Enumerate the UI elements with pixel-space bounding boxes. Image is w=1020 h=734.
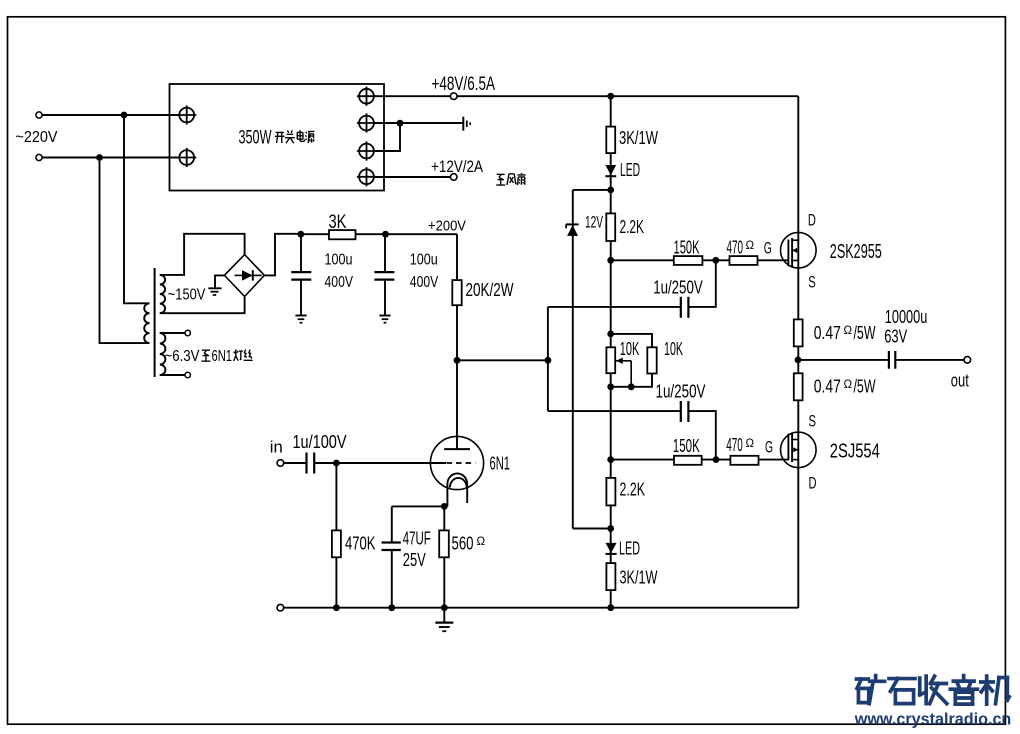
wire source to out [797,346,799,373]
wire upper coupling right [689,260,715,307]
svg-text:150K: 150K [673,436,700,456]
svg-text:/5W: /5W [854,323,876,343]
wire grid [315,462,446,464]
svg-text:0.47: 0.47 [814,323,841,343]
svg-text:~220V: ~220V [16,129,59,146]
svg-text:100u: 100u [325,251,353,268]
svg-text:~6.3V: ~6.3V [165,348,200,365]
wire output row [798,359,888,361]
svg-text:560: 560 [452,534,474,554]
wire 150V top lead [160,234,245,275]
bridge rectifier D1 [224,255,264,297]
node pot top [607,331,614,338]
terminal AC N [36,154,42,160]
svg-text:12V: 12V [585,213,603,232]
wire 470-gate lower [759,459,789,461]
wire gate row 2 [611,459,674,461]
wire 150K-470 [702,259,729,261]
svg-text:D: D [808,210,816,229]
svg-text:6N1: 6N1 [490,452,511,473]
node feedback tap 2 [713,456,720,463]
wire 150K-470 lower [702,459,731,461]
wire divider vertical [547,307,549,411]
terminal input return [277,604,284,611]
capacitor 10000u/63V [888,351,890,369]
capacitor C1 100u/400V [300,234,302,271]
label 开关电源 [276,131,284,133]
wire bias column [610,96,612,608]
terminal box-right-4 [359,169,374,184]
terminal input [277,460,284,467]
LED upper [605,165,616,175]
node plate/feedback junction [454,357,461,364]
svg-text:0.47: 0.47 [814,377,841,397]
svg-text:~150V: ~150V [168,286,206,303]
node output [795,357,802,364]
capacitor 1u/250V lower [680,401,682,422]
resistor 560 [443,506,445,607]
terminal 6.3V bottom [160,374,185,376]
svg-text:2.2K: 2.2K [620,216,645,237]
svg-text:D: D [809,473,817,492]
label 至风扇 [497,173,505,175]
svg-text:400V: 400V [325,274,354,291]
svg-text:150K: 150K [674,237,700,257]
wire +200V rail left [301,233,329,235]
terminal +48V [450,93,457,100]
transformer core [154,268,156,377]
svg-text:www.crystalradio.cn: www.crystalradio.cn [854,710,1011,729]
svg-text:LED: LED [620,160,640,180]
node zener top junction [607,187,614,194]
svg-text:/5W: /5W [854,377,876,397]
wire pot top to 10K [611,334,652,347]
svg-text:Ω: Ω [746,438,755,450]
tube grid (dashed) [447,462,476,464]
wire lower coupling [548,410,680,412]
ground main [443,608,445,622]
wire to zener [573,189,611,191]
terminal AC L [36,112,42,118]
node C2 junction [382,231,389,238]
wire input [284,462,306,464]
tube 6N1 envelope [430,436,483,489]
wire gate row 1 [611,259,674,261]
resistor 3K/1W upper [606,127,615,154]
zener D2 12V [572,190,574,529]
resistor 0.47/5W upper [794,319,803,346]
mosfet Q1 2SK2955 [781,232,817,268]
svg-text:10K: 10K [620,339,640,359]
svg-text:Ω: Ω [844,379,853,391]
svg-text:470: 470 [727,238,744,258]
svg-text:Ω: Ω [844,325,853,337]
svg-text:10K: 10K [664,339,683,359]
transformer secondary ~6.3V winding [160,333,166,375]
wire AC N [42,157,179,159]
resistor 3K [329,230,356,239]
svg-text:3K: 3K [329,212,347,233]
wire zener bottom [573,528,611,530]
wire plate to divider [457,359,548,361]
capacitor 47UF/25V [391,506,393,542]
svg-text:47UF: 47UF [403,528,431,548]
svg-text:2SK2955: 2SK2955 [830,240,882,263]
terminal +12V [450,174,457,181]
wire lower coupling right [689,411,715,460]
wire 150V bottom lead [160,297,245,313]
ground at bridge AC- corner [215,275,224,288]
svg-text:out: out [951,371,969,391]
svg-text:1u/250V: 1u/250V [656,381,706,401]
node gate row 1 [607,257,614,264]
LED lower [606,543,617,553]
wire AC-N to transformer primary bottom [100,158,150,344]
node wiper bottom [628,383,635,390]
svg-text:2SJ554: 2SJ554 [830,440,880,463]
svg-text:+48V/6.5A: +48V/6.5A [432,74,496,95]
svg-text:LED: LED [619,539,640,559]
node pot bottom [607,383,614,390]
wire terminal3 strap [374,123,400,151]
resistor 470K [335,463,337,608]
node 47UF/rail [388,604,395,611]
resistor 2.2K upper [606,213,615,241]
node gate row 2 [607,456,614,463]
node 470K/rail [333,604,340,611]
ground C1 [295,315,306,317]
wire +200V rail right [356,233,458,235]
node +48V at 3K/1W branch [607,93,614,100]
node PSU gnd junction [397,120,404,127]
resistor 0.47/5W lower [794,373,803,400]
svg-text:in: in [270,438,283,457]
node feedback tap 1 [712,257,719,264]
terminal box-right-1 [359,89,374,104]
svg-text:350W: 350W [239,128,272,149]
svg-text:20K/2W: 20K/2W [466,280,514,300]
terminal box-left-1 [179,108,194,123]
svg-text:10000u: 10000u [885,307,928,327]
resistor 2.2K lower [606,478,615,506]
terminal box-right-2 [359,116,374,131]
svg-text:470: 470 [726,435,743,455]
svg-text:+200V: +200V [428,219,466,235]
wire output to terminal [896,359,964,361]
svg-text:1u/100V: 1u/100V [293,432,347,452]
resistor 470 lower [730,456,758,465]
terminal box-left-2 [179,150,194,165]
transformer secondary ~150V winding [160,275,165,313]
svg-text:2.2K: 2.2K [620,478,646,499]
wire pot bottom [611,374,652,387]
wire AC L [42,114,179,116]
resistor 10K fixed [647,347,656,373]
capacitor 1u/250V upper [680,297,682,318]
transformer primary winding [144,303,149,343]
resistor 150K upper [674,256,703,265]
watermark 矿石收音机 [856,677,868,681]
svg-text:3K/1W: 3K/1W [619,128,658,148]
node zener bottom junction [607,525,614,532]
ground PSU (rotated) [462,117,464,131]
resistor 3K/1W lower [606,563,615,590]
resistor 470 upper [730,256,758,265]
svg-text:470K: 470K [345,534,376,554]
wire bridge output [264,234,299,276]
node cathode junction [392,505,448,507]
mosfet Q2 2SJ554 [781,432,817,468]
svg-text:1u/250V: 1u/250V [653,277,703,297]
node 560/rail [441,604,448,611]
svg-text:63V: 63V [884,327,907,347]
svg-text:+12V/2A: +12V/2A [431,157,484,176]
wire 470-gate [758,259,789,261]
resistor 20K/2W [452,280,461,305]
power supply box 350W [170,84,385,191]
wire source 2SJ554 [797,400,799,607]
terminal out [964,357,971,364]
svg-text:S: S [809,411,817,430]
svg-text:G: G [764,239,772,258]
wire AC-L to transformer primary top [124,115,150,303]
node AC-N junction [96,154,103,161]
svg-text:3K/1W: 3K/1W [620,568,658,588]
wire +48V rail [374,95,798,97]
terminal 6.3V top [160,332,185,334]
resistor 150K lower [674,456,702,465]
node AC-L junction [121,112,128,119]
wire PSU ground [374,122,463,124]
wire upper coupling [548,306,680,308]
terminal box-right-3 [359,144,374,159]
node bias/rail [607,604,614,611]
wire bottom rail [284,607,799,609]
node bridge/C1 junction [297,231,304,238]
tube cathode [447,473,467,506]
ground C2 [379,315,390,317]
wire +200V down / plate feed [456,234,458,449]
svg-text:Ω: Ω [477,536,486,548]
tube plate [444,448,470,450]
svg-text:400V: 400V [410,274,439,291]
capacitor 1u/100V [305,453,307,474]
svg-text:6N1: 6N1 [212,348,233,365]
svg-text:S: S [808,273,816,292]
svg-text:Ω: Ω [746,240,755,252]
svg-text:25V: 25V [403,550,426,570]
potentiometer 10K [606,347,615,373]
wire drain 2SK2955 [797,96,799,319]
capacitor C2 100u/400V [384,234,386,271]
svg-text:G: G [765,438,773,457]
wire +12V [374,176,450,178]
node divider mid [545,357,552,364]
svg-text:100u: 100u [410,251,438,268]
node grid/470K junction [333,460,340,467]
